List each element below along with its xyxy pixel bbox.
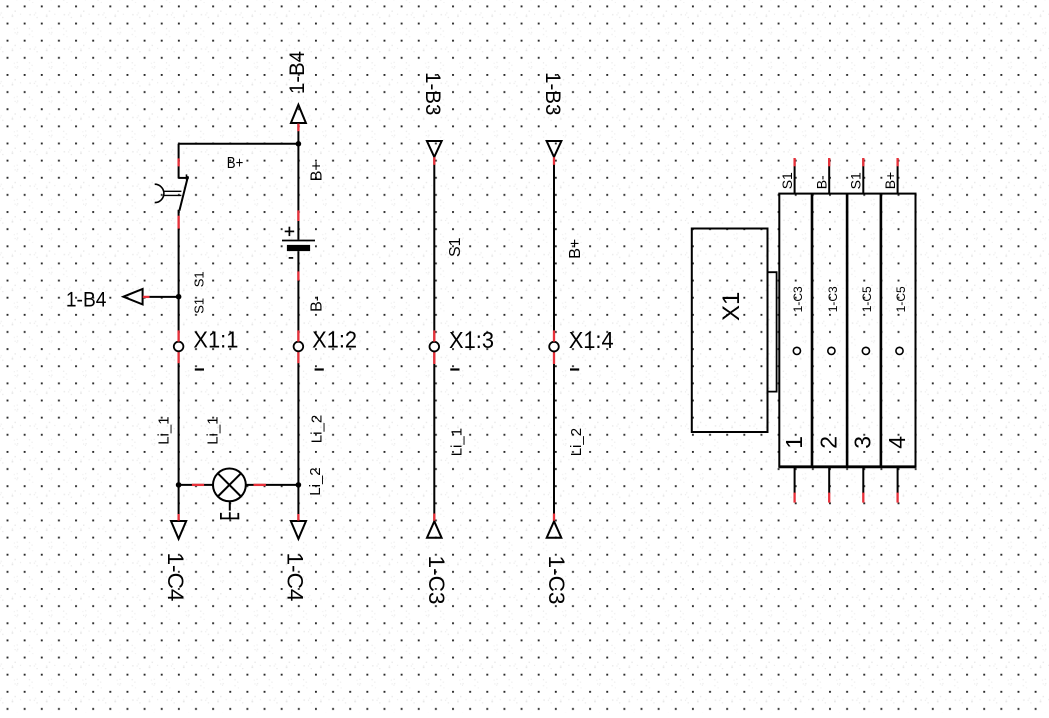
svg-text:2: 2 [816,436,842,449]
svg-text:S1: S1 [779,172,795,189]
svg-text:1-C5: 1-C5 [860,286,874,312]
svg-text:S1: S1 [192,298,207,314]
svg-text:1-C5: 1-C5 [894,286,908,312]
svg-text:S1: S1 [447,237,464,257]
svg-text:1-C3: 1-C3 [826,286,840,312]
svg-text:1-B3: 1-B3 [421,72,444,116]
svg-text:S1: S1 [848,172,864,189]
svg-text:Li_2: Li_2 [309,415,326,443]
svg-text:1-C3: 1-C3 [544,556,569,605]
svg-text:1-C3: 1-C3 [791,286,805,312]
svg-text:B+: B+ [567,239,584,259]
svg-text:B-: B- [309,296,326,312]
svg-text:1: 1 [781,436,807,449]
svg-text:1-C4: 1-C4 [283,553,308,602]
svg-text:Li_1: Li_1 [205,416,222,444]
svg-text:3: 3 [850,436,876,449]
svg-text:1-C4: 1-C4 [163,553,188,602]
svg-text:S1: S1 [192,271,207,287]
svg-text:X1:1: X1:1 [193,327,238,353]
svg-text:Li_2: Li_2 [307,467,324,495]
svg-text:Li_1: Li_1 [448,428,465,456]
svg-text:1-C3: 1-C3 [424,556,449,605]
svg-text:X1: X1 [718,292,745,321]
svg-text:Li_1: Li_1 [155,416,172,444]
svg-text:X1:2: X1:2 [312,327,357,353]
svg-text:B+: B+ [882,172,898,190]
svg-text:1-B4: 1-B4 [66,288,107,311]
svg-text:X1:4: X1:4 [569,327,614,353]
svg-text:B+: B+ [227,155,244,172]
svg-text:1-B4: 1-B4 [286,51,309,94]
svg-text:1-B3: 1-B3 [541,72,564,116]
svg-text:B-: B- [814,175,830,189]
svg-text:X1:3: X1:3 [449,327,494,353]
svg-text:B+: B+ [308,161,325,181]
svg-text:4: 4 [884,436,910,449]
svg-text:Li_2: Li_2 [568,428,585,456]
